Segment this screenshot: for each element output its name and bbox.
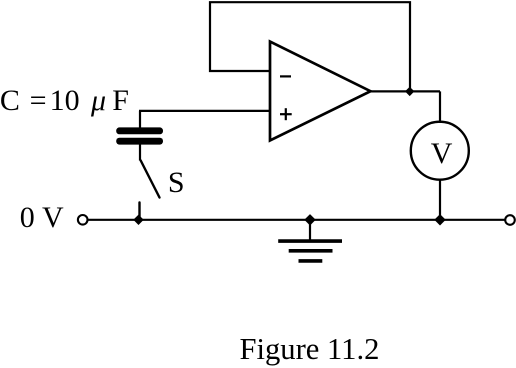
svg-text:0V: 0V xyxy=(20,201,64,234)
ground xyxy=(278,220,342,261)
capacitor C1 xyxy=(116,127,163,144)
switch S xyxy=(140,161,160,221)
wire: capacitor top lead xyxy=(139,111,141,129)
pin label: inverting input (-) xyxy=(280,75,291,77)
wire: op-amp output to voltmeter corner xyxy=(369,90,440,92)
terminal: right open-circle output terminal xyxy=(505,215,515,225)
wire: non-inverting input from capacitor xyxy=(139,110,270,112)
node: voltmeter to rail junction xyxy=(434,214,445,225)
node: ground junction xyxy=(304,214,315,225)
node: output junction xyxy=(405,87,414,96)
pin label: non-inverting input (+) xyxy=(280,113,292,115)
wire: capacitor bottom lead xyxy=(139,144,141,161)
wire: voltmeter top lead xyxy=(439,91,441,123)
svg-text:V: V xyxy=(431,137,453,170)
wire: bottom 0V rail xyxy=(88,219,506,221)
terminal: left open-circle input terminal xyxy=(78,215,88,225)
svg-text:S: S xyxy=(168,166,185,199)
op-amp U1 xyxy=(270,42,371,141)
node: switch to rail junction xyxy=(133,215,143,225)
wire: feedback loop from output node to inverting input xyxy=(210,2,410,91)
wire: voltmeter bottom lead xyxy=(439,180,441,221)
voltmeter V xyxy=(411,122,469,180)
svg-text:Figure 11.2: Figure 11.2 xyxy=(240,332,380,366)
